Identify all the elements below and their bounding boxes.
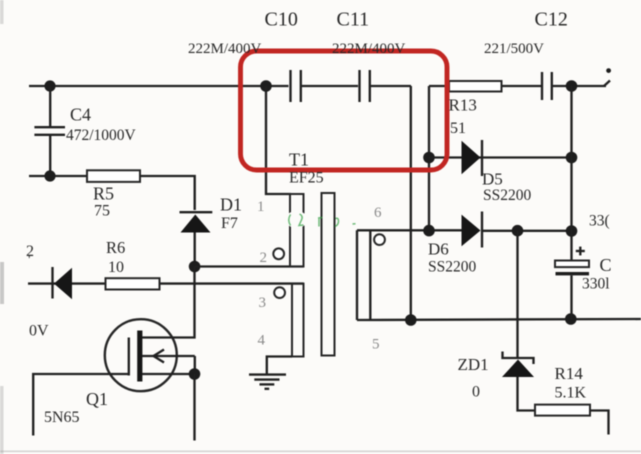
Q1 gate bar xyxy=(128,338,130,376)
svg-text:221/500V: 221/500V xyxy=(484,41,544,57)
svg-text:1: 1 xyxy=(257,199,265,215)
pin 6 terminal circle xyxy=(374,234,385,245)
svg-text:D6: D6 xyxy=(428,240,449,259)
svg-text:4: 4 xyxy=(258,333,266,349)
resistor R5 body xyxy=(87,170,140,182)
wire: ZD1 to R14 xyxy=(518,377,537,411)
svg-text:R6: R6 xyxy=(106,238,125,257)
svg-text:33(: 33( xyxy=(589,213,610,230)
svg-text:ZD1: ZD1 xyxy=(458,355,489,374)
node: junction D5 out (571.5,157.5) xyxy=(566,152,578,164)
svg-text:SS2200: SS2200 xyxy=(483,187,531,204)
wire: pin2 wire y=266.5 xyxy=(195,265,304,267)
diode D6 (pointing right) xyxy=(462,212,483,248)
svg-text:5: 5 xyxy=(372,337,380,353)
wire: vertical x=411 from top bus down to pin5 line xyxy=(410,86,412,320)
node: junction D5 anode (429,157.5) xyxy=(423,152,435,164)
node: junction C12 output (571.5,86) xyxy=(566,80,578,92)
Q1 channel bar xyxy=(137,331,142,382)
svg-text:': ' xyxy=(28,253,31,268)
wire: gate lead from left xyxy=(33,374,129,436)
svg-text:5.1K: 5.1K xyxy=(555,385,587,402)
edge smudge top-left xyxy=(0,0,4,24)
wire: R5 to D1 corner xyxy=(140,176,195,210)
wire: source down to bottom xyxy=(193,374,195,441)
svg-text:C: C xyxy=(600,255,612,275)
wire: vertical x=571.5 output rail xyxy=(570,86,572,319)
capacitor C11 plates xyxy=(360,70,370,102)
node: junction x=570.5 on pin5 line xyxy=(565,313,577,325)
node: junction cap top (571.5,231) xyxy=(566,225,578,237)
svg-text:T1: T1 xyxy=(289,150,309,170)
wire: D6 out y=230.8 xyxy=(483,230,572,232)
Q1 source lead xyxy=(142,373,195,375)
transformer T1 core xyxy=(322,193,335,356)
svg-text:C4: C4 xyxy=(70,105,91,125)
svg-text:0: 0 xyxy=(472,384,480,401)
wire: C11 to corner at x=410 xyxy=(371,85,411,87)
node: junction source (194.5,374) xyxy=(189,368,201,380)
wire: main top bus y=86 left segment xyxy=(29,85,289,87)
diode D2 (pointing left) xyxy=(53,267,73,299)
capacitor C4 symbol xyxy=(34,86,65,176)
svg-text:C12: C12 xyxy=(535,9,568,31)
capacitor C12 plates xyxy=(542,72,552,100)
resistor R6 body xyxy=(106,278,160,289)
svg-text:3: 3 xyxy=(259,295,267,311)
wire: second bus y=176 xyxy=(29,175,88,177)
Q1 body diode arrow line xyxy=(142,350,195,375)
transformer T1 primary lower winding box (pins 3-4) xyxy=(292,284,304,357)
transistor Q1 (MOSFET) body circle xyxy=(105,319,177,391)
diode D5 (pointing right) xyxy=(462,140,483,176)
svg-text:C11: C11 xyxy=(337,9,370,31)
ground symbol xyxy=(249,375,286,389)
pin 2 terminal circle xyxy=(273,248,284,259)
svg-text:0V: 0V xyxy=(29,323,49,340)
wire: between C10 and C11 xyxy=(302,85,358,87)
wire: R6 / pin3 row y=283.6 xyxy=(28,282,304,284)
svg-text:D5: D5 xyxy=(482,170,503,189)
svg-text:10: 10 xyxy=(108,259,124,276)
watermark white blob xyxy=(286,211,308,228)
svg-text:51: 51 xyxy=(450,120,466,137)
svg-text:R13: R13 xyxy=(449,96,477,115)
polarity + mark xyxy=(576,247,585,256)
resistor R14 body xyxy=(535,405,590,416)
svg-text:EF25: EF25 xyxy=(289,170,324,187)
capacitor C10 plates xyxy=(291,70,301,102)
resistor R13 body xyxy=(449,81,502,92)
svg-text:D1: D1 xyxy=(220,195,242,215)
svg-text:330l: 330l xyxy=(582,276,610,293)
wire: R13 to C12 xyxy=(502,85,542,87)
watermark green fragments xyxy=(289,214,356,227)
svg-text:2: 2 xyxy=(260,250,268,266)
capacitor C (electrolytic) symbol xyxy=(555,261,589,276)
svg-text:R14: R14 xyxy=(555,364,584,383)
node: junction ZD1 tap (517.5,230.7) xyxy=(512,225,524,237)
svg-text:R5: R5 xyxy=(93,184,114,204)
wire: pin5 line y=320 to right edge xyxy=(357,319,641,320)
node: junction at C4 top (50,86) xyxy=(44,80,55,91)
svg-text:222M/400V: 222M/400V xyxy=(188,41,262,57)
wire: D5 row y=157.5 xyxy=(429,156,572,158)
red highlight rounded box around C10/C11 xyxy=(241,51,448,170)
node: junction drain/pin2 (194.5,266.5) xyxy=(189,261,201,273)
svg-text:6: 6 xyxy=(374,205,382,221)
node: junction at C4 bottom (50,176) xyxy=(44,170,55,181)
wire: R13 tap stub y=86 xyxy=(429,85,450,87)
zener diode ZD1 (cathode up, bent bar) xyxy=(502,352,534,378)
wire: pin4 to ground xyxy=(267,357,292,375)
wire: ZD1 vertical x=517.5 xyxy=(516,231,518,357)
wire: snubber left drop x=266 to pin1 xyxy=(266,86,291,194)
svg-text:5N65: 5N65 xyxy=(44,409,80,426)
faint bottom scan line xyxy=(0,451,641,453)
wire: C12 to output stub with curl end xyxy=(553,68,611,86)
node: junction x=411 on pin5 line xyxy=(405,314,417,326)
Q1 drain lead xyxy=(142,267,195,338)
svg-text:222M/400V: 222M/400V xyxy=(332,41,406,57)
transformer T1 primary upper winding box (pins 1-2) xyxy=(290,194,304,267)
svg-text:F7: F7 xyxy=(221,215,238,232)
wire: pin6 wire y=230.3 to D6 xyxy=(357,229,462,231)
svg-text:472/1000V: 472/1000V xyxy=(66,127,137,144)
svg-text:SS2200: SS2200 xyxy=(428,259,476,276)
svg-text:C10: C10 xyxy=(265,9,298,31)
wire: R14 right drop xyxy=(590,411,609,435)
wire: vertical x=429 from R13 tap down to D6 line xyxy=(428,86,430,231)
svg-text:Q1: Q1 xyxy=(86,389,108,409)
node: junction D6 anode (429,230.6) xyxy=(423,225,435,237)
edge smudge left bottom xyxy=(0,386,4,454)
transformer T1 secondary winding box (pins 6-5) xyxy=(357,230,370,320)
pin 3 terminal circle xyxy=(274,287,285,298)
svg-text:75: 75 xyxy=(94,203,110,220)
diode D1 (cathode bar up) xyxy=(180,212,213,266)
node: junction at snubber left (266,86) xyxy=(260,80,272,92)
edge smudge left middle xyxy=(0,262,4,304)
